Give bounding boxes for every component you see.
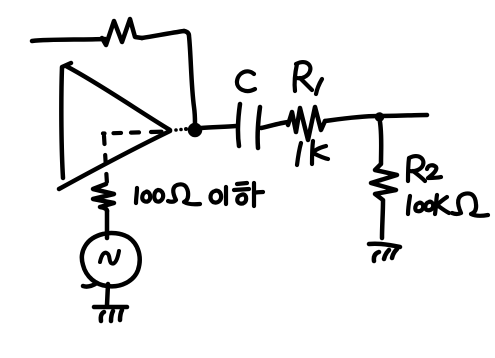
ground under source bar — [94, 305, 127, 310]
ground under R2 tick 1 — [374, 252, 379, 261]
ground under source tick 1 — [101, 312, 104, 321]
op-amp dashed vertical stem — [104, 136, 107, 184]
label hangul HA circle — [237, 194, 246, 203]
wire R1 to junction — [325, 116, 378, 121]
label hangul HA top tick — [237, 183, 247, 184]
source V1 circle — [82, 233, 140, 286]
resistor R1 squiggle — [288, 107, 325, 140]
wire R2 to ground — [382, 201, 383, 238]
wire junction to right end — [381, 115, 427, 116]
label 100 ohm text: 0 — [142, 192, 150, 202]
wire source to ground — [107, 284, 108, 305]
resistor RF squiggle — [102, 19, 142, 45]
op-amp U1 triangle bottom edge — [59, 131, 170, 189]
ground under R2 tick 2 — [384, 250, 389, 259]
junction node dot — [376, 113, 384, 121]
wire feedback to corner — [142, 31, 184, 38]
ground under source tick 3 — [120, 310, 122, 320]
label 1K value — [297, 141, 328, 165]
op-amp dashed horizontal axis — [103, 132, 167, 134]
label R1 subscript 1 — [316, 79, 322, 94]
label 100 ohm text: 0 second — [154, 190, 163, 202]
wire Rs to source — [105, 211, 110, 238]
label R2 letter R — [408, 156, 425, 181]
label hangul HA mid bar — [234, 189, 249, 190]
ground under R2 bar — [369, 244, 400, 247]
capacitor C left plate — [238, 104, 240, 146]
source V1 sine tilde — [100, 251, 119, 264]
label R2 subscript 2 — [427, 165, 441, 178]
node output dot — [189, 124, 201, 136]
label ohm sign of 100 — [168, 184, 200, 204]
op-amp U1 triangle left edge — [61, 63, 71, 178]
wire feedback top horizontal — [32, 39, 105, 41]
label hangul HA vowel vertical — [252, 183, 256, 206]
ground under R2 tick 3 — [392, 249, 397, 258]
resistor R2 squiggle — [371, 164, 397, 200]
label 100K value — [408, 195, 449, 214]
wire junction down to R2 — [380, 122, 381, 163]
label R1 letter R — [295, 62, 312, 91]
label 100 ohm text: 1 — [136, 188, 137, 203]
wire node to capacitor — [201, 126, 236, 128]
wire capacitor to R1 — [261, 122, 288, 128]
label hangul I circle — [211, 191, 222, 203]
label C — [237, 71, 255, 91]
label ohm sign of 100K — [452, 193, 488, 215]
resistor Rs squiggle below op-amp — [93, 184, 114, 211]
capacitor C right plate — [258, 107, 260, 148]
label hangul HA vowel tick — [254, 192, 263, 193]
label hangul I vertical — [224, 187, 228, 204]
source V1 bottom-left hook — [83, 283, 97, 287]
op-amp U1 triangle top edge — [66, 66, 170, 130]
dots between apex and node — [174, 128, 178, 132]
wire feedback vertical down — [184, 31, 195, 124]
ground under source tick 2 — [111, 311, 113, 321]
